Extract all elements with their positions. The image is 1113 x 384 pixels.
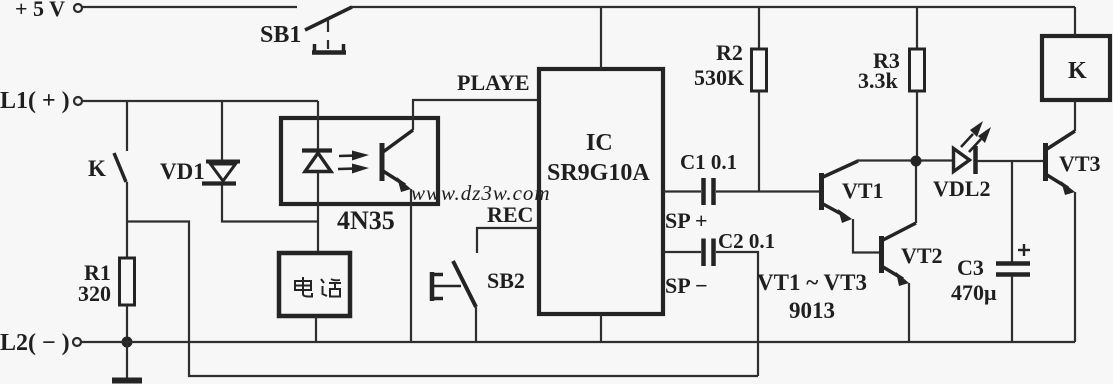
svg-text:SB1: SB1 bbox=[260, 22, 301, 48]
svg-text:530K: 530K bbox=[694, 65, 744, 90]
svg-text:VT1: VT1 bbox=[842, 178, 884, 203]
component phone box 电话 bbox=[279, 253, 350, 316]
wire +5V to K box bbox=[1074, 7, 1076, 36]
wire VT1 collector to junction bbox=[857, 159, 912, 161]
svg-text:REC: REC bbox=[487, 202, 533, 227]
svg-text:470μ: 470μ bbox=[951, 280, 997, 305]
wire opto emitter down to L2 bbox=[410, 189, 412, 342]
node junction R3/VT1/VT2/VDL2 bbox=[911, 156, 922, 167]
wire junction to VDL2 bbox=[921, 159, 953, 161]
capacitor C2 bbox=[663, 229, 775, 376]
node junction R1/L2 bbox=[122, 337, 133, 348]
wire L2 rail bbox=[81, 341, 1075, 343]
svg-text:SB2: SB2 bbox=[487, 268, 525, 293]
resistor R2 bbox=[694, 7, 767, 191]
wire VT1 emitter to VT2 base bbox=[853, 219, 879, 253]
transistor VT2 bbox=[882, 223, 943, 286]
wire +5V to IC top bbox=[600, 7, 602, 69]
diode VD1 bbox=[160, 159, 240, 184]
node L2(-) terminal bbox=[0, 330, 81, 356]
IC U2 SR9G10A box bbox=[539, 69, 663, 314]
svg-text:VT1 ~ VT3: VT1 ~ VT3 bbox=[757, 270, 867, 295]
wire opto LED down to phone box bbox=[317, 171, 319, 253]
wire K junction branch to bottom net bbox=[127, 222, 758, 377]
resistor R3 bbox=[858, 7, 925, 160]
relay K box bbox=[1042, 36, 1110, 100]
svg-text:K: K bbox=[88, 156, 106, 181]
svg-text:VD1: VD1 bbox=[160, 159, 205, 184]
svg-text:SR9G10A: SR9G10A bbox=[547, 160, 650, 186]
svg-text:www.dz3w.com: www.dz3w.com bbox=[411, 181, 551, 205]
opto light arrows bbox=[338, 151, 369, 174]
svg-text:VT2: VT2 bbox=[901, 243, 943, 268]
wire +5V rail left bbox=[82, 6, 297, 8]
wire K branch upper bbox=[126, 101, 128, 151]
wire K box to VT3 collector bbox=[1074, 100, 1076, 131]
wire to ground bbox=[126, 342, 128, 378]
svg-text:VT3: VT3 bbox=[1059, 151, 1101, 176]
svg-text:SP −: SP − bbox=[665, 273, 708, 298]
wire SB2 to L2 bbox=[475, 307, 477, 342]
wire phone box to L2 bbox=[315, 316, 317, 342]
wire R1 to L2 bbox=[126, 305, 128, 342]
switch SB2 bbox=[431, 261, 525, 307]
svg-text:C1 0.1: C1 0.1 bbox=[680, 150, 737, 174]
wire VDL2 to VT3 base bbox=[977, 160, 1043, 162]
capacitor C1 bbox=[663, 150, 820, 205]
wire REC bbox=[477, 228, 539, 253]
svg-text:L2( − ): L2( − ) bbox=[0, 330, 70, 356]
node +5V terminal bbox=[15, 0, 82, 21]
wire K to R1 bbox=[126, 182, 128, 258]
svg-text:SP +: SP + bbox=[665, 208, 708, 233]
svg-text:C3: C3 bbox=[957, 255, 984, 280]
svg-text:K: K bbox=[1068, 58, 1087, 84]
wire VT2 collector up to junction bbox=[915, 161, 917, 223]
wire L1 rail bbox=[82, 100, 318, 102]
svg-text:PLAYE: PLAYE bbox=[457, 70, 530, 95]
svg-text:9013: 9013 bbox=[789, 298, 835, 323]
resistor R1 bbox=[78, 258, 135, 306]
wire C3 tap bbox=[1011, 161, 1013, 262]
optocoupler U1 4N35 box bbox=[281, 118, 438, 235]
wire L1 into opto LED bbox=[317, 101, 319, 150]
wire VD1 branch upper bbox=[221, 101, 223, 160]
svg-text:L1( + ): L1( + ) bbox=[0, 88, 70, 114]
transistor VT1 bbox=[822, 161, 884, 223]
svg-text:4N35: 4N35 bbox=[337, 206, 395, 235]
LED VDL2 bbox=[933, 121, 991, 201]
wire VD1 bottom to opto LED net bbox=[222, 185, 318, 222]
wire +5V rail right bbox=[351, 6, 1075, 8]
wire VT3 emitter to L2 bbox=[1074, 192, 1076, 342]
switch SB1 bbox=[260, 7, 352, 54]
diode opto LED bbox=[302, 151, 332, 172]
svg-text:+ 5 V: + 5 V bbox=[15, 0, 65, 21]
wire VT2 emitter to L2 bbox=[908, 283, 910, 342]
svg-text:320: 320 bbox=[78, 281, 111, 306]
svg-text:VDL2: VDL2 bbox=[933, 176, 990, 201]
svg-text:3.3k: 3.3k bbox=[858, 68, 899, 93]
node L1(+) terminal bbox=[0, 88, 82, 114]
wire opto collector to PLAYE bbox=[413, 100, 539, 130]
wire C3 to L2 bbox=[1011, 276, 1013, 342]
ground bbox=[112, 378, 142, 384]
wire IC bottom to L2 bbox=[600, 314, 602, 342]
svg-text:IC: IC bbox=[586, 130, 613, 156]
transistor VT3 bbox=[1046, 131, 1101, 195]
switch K bbox=[88, 153, 126, 182]
transistor opto phototransistor bbox=[382, 130, 413, 192]
label VT1~VT3 9013 bbox=[757, 270, 867, 323]
svg-text:R2: R2 bbox=[716, 40, 743, 65]
svg-text:C2 0.1: C2 0.1 bbox=[718, 229, 775, 253]
capacitor C3 bbox=[951, 244, 1030, 305]
